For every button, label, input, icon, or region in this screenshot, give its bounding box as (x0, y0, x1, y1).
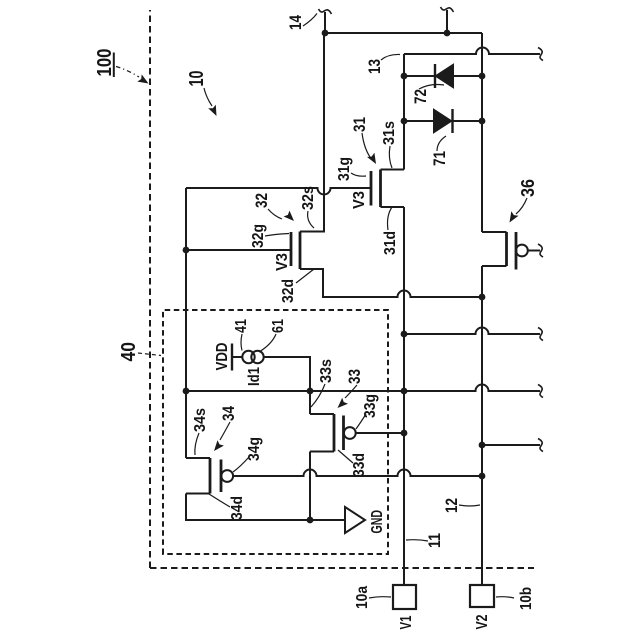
leader for 31s (389, 146, 392, 168)
node dot x306/line11 (401, 331, 408, 338)
block 40 dashed box (163, 310, 388, 554)
svg-text:100: 100 (94, 49, 116, 77)
transistor 34 source contact (186, 457, 210, 459)
wire: x=195 drop with cut mark (482, 444, 540, 446)
node dot x249/line11 (401, 388, 408, 395)
svg-text:34s: 34s (192, 408, 209, 432)
svg-text:V1: V1 (398, 615, 415, 629)
transistor 36 gate bar (515, 232, 518, 270)
wire: line 12 (y=482) left part to transistor 36 (481, 266, 483, 585)
leader for 41 (241, 334, 242, 351)
node dot 32 gate/bus (183, 247, 190, 254)
svg-text:V2: V2 (474, 614, 491, 629)
node dot 33gate/line11 (401, 430, 408, 437)
boundary 100 dashed horizontal (149, 10, 151, 568)
svg-text:12: 12 (442, 498, 461, 513)
svg-text:33g: 33g (362, 394, 379, 418)
leader for 10b (496, 597, 514, 598)
wire: line 11 right part from 31 source to corner (403, 54, 405, 170)
diode 71 wire (404, 120, 482, 122)
leader for 14 (303, 14, 317, 27)
leader for 33g (356, 414, 366, 429)
leader for 13 (381, 54, 400, 60)
svg-text:V3: V3 (351, 191, 368, 209)
gate bus corner to GND wire (186, 494, 345, 521)
node dot 71/line12 (479, 118, 486, 125)
leader for 32g (265, 234, 289, 237)
cut squiggle x306 (538, 328, 543, 341)
transistor 33 gate bar (342, 416, 345, 451)
svg-text:10a: 10a (354, 586, 371, 609)
svg-text:72: 72 (411, 89, 430, 104)
leader for 10a (369, 597, 391, 598)
leader arrow for 34 (214, 422, 230, 451)
leader arrow for 32 (268, 209, 294, 221)
leader for 33d (338, 450, 353, 463)
svg-text:V3: V3 (274, 253, 291, 271)
transistor 33 source contact (310, 413, 334, 415)
transistor 31 gate lead x=452 with hop over rail y=324 (186, 188, 371, 194)
wire VDD bar to current source (232, 356, 243, 358)
leader for 31d (388, 207, 393, 230)
transistor 36 gate lead with cut mark (528, 250, 540, 252)
svg-text:41: 41 (233, 319, 250, 333)
node dot x249/bus (183, 388, 190, 395)
leader for 31g (351, 173, 366, 176)
leader for 11 (406, 540, 428, 541)
transistor 33 drain contact (310, 451, 334, 453)
leader for 33s (311, 384, 325, 407)
current source 41 circle (242, 351, 254, 363)
transistor 32 gate bar (290, 232, 293, 266)
transistor 31 source contact (381, 169, 405, 171)
transistor 36 gate bubble (516, 245, 528, 257)
svg-text:34: 34 (219, 406, 238, 421)
node dot x249/y310 (307, 388, 314, 395)
cut squiggle stub 14 (319, 9, 332, 14)
leader for 61 (259, 334, 276, 352)
svg-text:33: 33 (345, 369, 364, 384)
transistor 31 drain contact (381, 206, 405, 208)
svg-text:32: 32 (252, 193, 271, 208)
ground symbol triangle (345, 507, 365, 533)
node dot GNDwire/y310 (307, 517, 314, 524)
wire: line 11 (y=404) left part to transistor 31 drain (403, 207, 405, 585)
leader for 71 (437, 136, 446, 151)
wire: line 12 right part from 36 to supply corner (481, 33, 483, 232)
svg-text:71: 71 (430, 151, 449, 166)
svg-text:GND: GND (369, 510, 386, 534)
svg-text:31d: 31d (382, 231, 399, 255)
transistor 32 source contact and rail to supply (300, 33, 324, 232)
transistor 31 channel bar (379, 170, 382, 208)
svg-text:10b: 10b (518, 587, 535, 610)
svg-text:31: 31 (350, 117, 369, 132)
label 100 (94, 49, 116, 78)
wire 33 drain to GND wire (309, 452, 311, 521)
svg-text:32d: 32d (280, 279, 297, 303)
node dot 32 drain/line12 (479, 294, 486, 301)
leader for 10 (arrow) (204, 88, 217, 116)
transistor 34 gate bar (220, 460, 223, 493)
svg-text:32g: 32g (250, 224, 267, 248)
cut squiggle x249 (538, 385, 543, 398)
node dot supply/stub14 (322, 30, 329, 37)
transistor 36 drain contact (482, 265, 507, 267)
svg-text:34d: 34d (229, 496, 246, 520)
terminal box 10b (V2) (470, 585, 494, 607)
wire: stub B with cut mark (446, 10, 448, 33)
leader arrow for 31 (362, 133, 376, 164)
svg-text:32s: 32s (300, 186, 317, 210)
transistor 31 gate bar (370, 171, 373, 206)
diode 71 (pointing down) (434, 109, 453, 133)
transistor 36 channel bar (505, 232, 508, 266)
wire: x=306 drop from line11 with hop over line12, cut mark (404, 328, 540, 335)
transistor 33 gate bubble (344, 427, 356, 439)
leader for 100 (dash-dot arrow) (116, 67, 149, 84)
svg-text:13: 13 (365, 59, 384, 74)
leader for 12 (459, 505, 480, 506)
wire: supply vertical x=607 (324, 32, 482, 34)
svg-text:31s: 31s (381, 121, 398, 145)
svg-text:10: 10 (186, 71, 208, 87)
current source 61 circle (251, 351, 263, 363)
transistor 34 channel bar (209, 458, 212, 494)
node dot line12/x195 (479, 442, 486, 449)
leader arrow for 36 (510, 198, 528, 223)
leader arrow for 33 (338, 385, 358, 408)
svg-text:Id1: Id1 (246, 367, 263, 386)
transistor 36 source contact (482, 231, 507, 233)
svg-text:40: 40 (118, 342, 140, 362)
node dot 72/line12 (479, 73, 486, 80)
leader for 32d (296, 269, 314, 283)
terminal box 10a (V1) (393, 585, 416, 609)
transistor 34 gate lead to line 12 with hops over y310 and line 11 (233, 470, 482, 477)
boundary 100 dashed vertical (150, 567, 534, 569)
leader for 34g (233, 457, 249, 472)
gate bus y=186 (185, 188, 187, 458)
cut squiggle x195 (538, 439, 543, 452)
svg-text:VDD: VDD (214, 343, 231, 371)
transistor 33 gate lead to line 11 (356, 432, 404, 434)
transistor 33 channel bar (333, 414, 336, 452)
leader for 32s (308, 211, 314, 228)
wire: x=249 (current source node) with hop over line12, cut mark (186, 385, 540, 392)
svg-text:33d: 33d (351, 453, 368, 477)
transistor 34 drain contact (186, 493, 210, 495)
node dot 71/line11 (401, 118, 408, 125)
transistor 34 gate bubble (221, 470, 233, 482)
wire: line 13 vertical drop with hop over line 12, cut mark at end (404, 48, 540, 55)
leader for 72 (419, 85, 444, 90)
diode 72 (pointing up) (435, 64, 453, 88)
svg-text:31g: 31g (336, 157, 353, 181)
node dot 72/line11 (401, 73, 408, 80)
cut squiggle line 13 end (538, 48, 543, 61)
transistor 32 channel bar (299, 232, 302, 270)
svg-text:14: 14 (286, 15, 305, 30)
node dot line12/x164 (34 gate) (479, 473, 486, 480)
wire current source to y310 corner (264, 357, 310, 414)
svg-text:33s: 33s (318, 359, 335, 383)
VDD terminal bar 41 (231, 344, 233, 371)
leader for 34s (195, 433, 199, 455)
leader for 40 (dashed) (138, 353, 161, 356)
wire: stub 14 with cut mark (324, 12, 326, 33)
cut squiggle stub B (441, 7, 454, 12)
diode 72 wire (404, 75, 482, 77)
cut squiggle 36 gate (538, 244, 543, 257)
node dot supply/stubB (444, 30, 451, 37)
transistor 32 drain contact and drop to line 12 with hop over line 11 (300, 269, 482, 297)
svg-text:61: 61 (270, 319, 287, 333)
transistor 32 gate lead x=390 (186, 249, 291, 251)
leader for 34d (209, 494, 230, 507)
svg-text:36: 36 (518, 179, 538, 197)
